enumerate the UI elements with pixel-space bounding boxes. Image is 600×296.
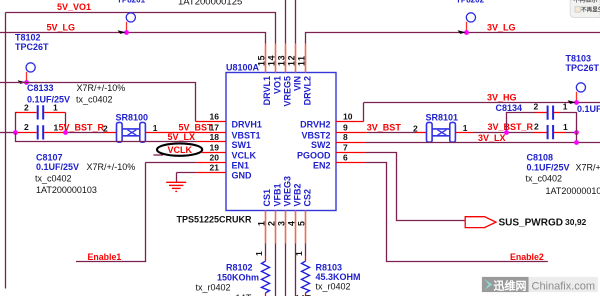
svg-text:SUS_PWRGD: SUS_PWRGD	[499, 217, 563, 228]
svg-text:3V_HG: 3V_HG	[487, 92, 517, 102]
resistor R8103 body	[302, 261, 310, 293]
svg-text:1AT200000125: 1AT200000125	[178, 0, 242, 8]
svg-text:SR8100: SR8100	[116, 113, 149, 123]
svg-text:1: 1	[257, 221, 267, 226]
svg-text:tx_c0402: tx_c0402	[526, 174, 563, 184]
svg-text:3V_BST: 3V_BST	[367, 123, 402, 133]
test point circle (mid left)	[26, 63, 35, 72]
pin 6 stub	[336, 162, 365, 164]
wire net 3V_LX	[365, 142, 600, 144]
svg-text:10: 10	[343, 112, 353, 122]
svg-text:DRVL2: DRVL2	[303, 76, 313, 105]
wire C8133 right lead	[44, 112, 65, 114]
wire C8133 row left corner	[16, 113, 18, 133]
svg-text:9: 9	[343, 122, 348, 132]
svg-text:1: 1	[254, 251, 264, 256]
wire net 3V_HG	[364, 102, 600, 104]
wire VIN pin 12 up	[295, 0, 297, 44]
wire net DRVH1 to pin 16	[0, 83, 196, 122]
svg-text:2: 2	[267, 221, 277, 226]
wire C8107 left lead	[16, 132, 37, 134]
svg-text:VREG3: VREG3	[282, 176, 292, 207]
wire net 5V_LX row to pin 18	[16, 133, 197, 142]
ground stem	[176, 173, 178, 183]
pin 20 stub	[196, 162, 226, 164]
test point stub	[576, 92, 578, 102]
capacitor C8134 plates	[548, 106, 554, 120]
svg-text:TPC26T: TPC26T	[566, 63, 600, 73]
wire 5V_BST_R under label	[66, 132, 104, 134]
svg-text:30,92: 30,92	[565, 217, 587, 227]
svg-text:11: 11	[297, 55, 307, 66]
svg-text:0.1UF/25V: 0.1UF/25V	[527, 163, 570, 173]
svg-text:R8102: R8102	[226, 263, 253, 273]
svg-text:不再显示: 不再显示	[574, 0, 598, 4]
jumper SR8101 body	[427, 122, 456, 142]
svg-text:CS2: CS2	[303, 189, 313, 207]
wire C8133 left lead	[16, 112, 37, 114]
pin 8 stub	[336, 142, 365, 144]
wire C8107 right lead / 5V_BST_R	[44, 132, 65, 134]
svg-text:TP8201: TP8201	[117, 0, 146, 5]
junction dot (576.3,142.8)	[574, 140, 579, 145]
wire SR8101 pin1 lead	[455, 132, 474, 134]
junction dot on DRVH1 net	[24, 80, 29, 85]
svg-text:1: 1	[563, 122, 568, 132]
svg-text:tx_c0402: tx_c0402	[35, 174, 72, 184]
watermark light box	[529, 277, 598, 292]
svg-text:TPC26T: TPC26T	[15, 42, 49, 52]
svg-text:EN1: EN1	[232, 161, 250, 171]
svg-text:3: 3	[277, 221, 287, 226]
test point TP circle (right top)	[466, 13, 475, 22]
svg-text:13: 13	[277, 55, 287, 66]
svg-text:VCLK: VCLK	[232, 151, 257, 161]
svg-text:19: 19	[210, 143, 220, 153]
svg-text:Enable1: Enable1	[88, 252, 122, 262]
junction dot on 3V_HG	[574, 100, 579, 105]
pin 16 stub	[196, 121, 227, 123]
jumper SR8100 body	[117, 122, 146, 142]
svg-text:GND: GND	[232, 171, 253, 181]
svg-text:12: 12	[287, 55, 297, 66]
svg-text:TPS51225CRUKR: TPS51225CRUKR	[177, 214, 253, 224]
svg-text:1AT200000103: 1AT200000103	[36, 185, 97, 195]
svg-text:15: 15	[257, 55, 267, 66]
wire 3V_BST to SR8101	[416, 132, 427, 134]
svg-text:3V_LX: 3V_LX	[478, 133, 506, 143]
svg-text:5V_VO1: 5V_VO1	[57, 2, 91, 12]
svg-text:U8100A: U8100A	[226, 63, 260, 73]
pin 18 stub	[196, 141, 226, 143]
capacitor C8108 plates	[548, 125, 554, 139]
svg-text:21: 21	[210, 163, 220, 173]
svg-text:VFB2: VFB2	[293, 183, 303, 206]
svg-text:DRVL1: DRVL1	[262, 76, 272, 105]
pin 9 stub	[336, 132, 367, 134]
capacitor C8133 plates	[38, 105, 44, 119]
svg-text:1: 1	[563, 102, 568, 112]
probe arrow on DRVH1 net	[18, 80, 26, 84]
svg-text:SR8101: SR8101	[426, 113, 459, 123]
wire net 5V_LG + corner to pin 15	[0, 33, 266, 44]
svg-text:1AT20000010: 1AT20000010	[546, 186, 600, 196]
IC U8100A body	[226, 73, 336, 211]
svg-text:不再显生: 不再显生	[581, 6, 600, 14]
svg-text:VCLK: VCLK	[168, 145, 193, 155]
wire pin 21 GND row	[177, 172, 197, 174]
junction dot (66,132.3)	[63, 130, 68, 135]
wire C8134 row1 left	[507, 113, 536, 133]
probe arrow on 3V_HG	[568, 100, 576, 104]
svg-text:1: 1	[294, 251, 304, 256]
svg-text:VBST2: VBST2	[301, 130, 330, 140]
off-page connector SUS_PWRGD	[465, 217, 496, 228]
pin 10 stub	[336, 121, 364, 123]
svg-text:5V_LX: 5V_LX	[168, 132, 196, 142]
wire C8134 left lead	[535, 112, 547, 114]
svg-text:tx_c0402: tx_c0402	[76, 94, 113, 104]
wire pin 20 row	[146, 162, 197, 164]
svg-text:EN2: EN2	[313, 161, 331, 171]
wire CS1 to R8102	[265, 244, 267, 257]
wire net 3V_LG + corner to pin 11	[306, 33, 600, 44]
wire C8133 right corner down	[65, 113, 67, 133]
pin 21 stub	[196, 172, 226, 174]
wire net 5V_LX left segment (row2)	[0, 132, 16, 134]
svg-text:0.1UF/25V: 0.1UF/25V	[27, 94, 70, 104]
junction dot (506.3,132.2)	[504, 130, 509, 135]
svg-text:2: 2	[103, 123, 108, 133]
wire VFB2 down	[295, 244, 297, 296]
svg-text:C8107: C8107	[36, 152, 63, 162]
svg-text:5V_BST_R: 5V_BST_R	[59, 123, 105, 133]
svg-text:4: 4	[287, 221, 297, 226]
svg-text:3V_BST_R: 3V_BST_R	[488, 122, 534, 132]
wire left vertical rail x=5.7	[5, 13, 7, 289]
svg-text:2: 2	[534, 102, 539, 112]
wire net Enable2	[365, 163, 547, 262]
overlay panel top right	[570, 0, 600, 18]
svg-text:1: 1	[53, 102, 58, 112]
wire R8102 bottom	[265, 293, 267, 296]
wire C8134 right corner down	[560, 113, 577, 132]
wire CS2 to R8103	[305, 244, 307, 257]
svg-text:Chinafix.com: Chinafix.com	[532, 280, 596, 292]
probe arrow on 5V_LG	[118, 30, 126, 34]
svg-text:tx_r0402: tx_r0402	[196, 283, 231, 293]
ground symbol	[166, 182, 186, 191]
wire C8108 left lead	[534, 132, 547, 134]
svg-text:SW1: SW1	[232, 140, 252, 150]
IC top pin stubs	[266, 44, 306, 73]
svg-text:1: 1	[463, 123, 468, 133]
wire VFB1 down	[275, 244, 277, 296]
junction dot (576.3,132.2)	[574, 130, 579, 135]
svg-text:R8103: R8103	[316, 262, 343, 272]
svg-text:CS1: CS1	[262, 189, 272, 207]
junction dot on 5V_LG	[124, 30, 129, 35]
wire 3V_BST under label	[367, 132, 416, 134]
svg-text:2: 2	[413, 123, 418, 133]
svg-text:8: 8	[343, 132, 348, 142]
capacitor C8107 plates	[38, 125, 44, 139]
svg-text:1: 1	[153, 123, 158, 133]
wire C8134 right lead	[554, 112, 560, 114]
wire VREG5 pin 13 up	[285, 0, 287, 44]
svg-text:6: 6	[343, 153, 348, 163]
test point stub	[26, 72, 28, 82]
svg-text:Enable2: Enable2	[510, 252, 544, 262]
wire VREG3 down	[285, 244, 287, 296]
svg-text:迅维网: 迅维网	[494, 278, 527, 292]
svg-text:2: 2	[24, 102, 29, 112]
svg-text:X7R/+/-10%: X7R/+/-10%	[77, 83, 126, 93]
svg-text:16: 16	[210, 112, 220, 122]
watermark dark box	[482, 277, 529, 292]
wire 5V_BST_R to SR8100	[103, 132, 117, 134]
test point stub	[126, 22, 128, 32]
probe arrow on 3V_LG	[458, 30, 466, 34]
svg-text:VIN: VIN	[293, 76, 303, 91]
svg-text:3V_LG: 3V_LG	[487, 23, 516, 33]
svg-text:0.1UF/25V: 0.1UF/25V	[36, 162, 79, 172]
test point TP circle (left top)	[126, 13, 135, 22]
svg-text:150KOhm: 150KOhm	[217, 273, 259, 283]
wire C8108 right lead	[554, 132, 565, 134]
test point stub	[466, 22, 468, 32]
wire SR8100 pin1 to pin17 / 5V_BST	[145, 132, 226, 134]
svg-text:17: 17	[210, 122, 220, 132]
svg-text:5V_LG: 5V_LG	[47, 23, 76, 33]
wire R8103 bottom	[305, 293, 307, 296]
svg-text:5: 5	[297, 221, 307, 226]
svg-text:X7R/+: X7R/+	[576, 163, 600, 173]
svg-text:14: 14	[267, 55, 277, 66]
svg-text:DRVH1: DRVH1	[232, 120, 262, 130]
svg-text:C8108: C8108	[527, 153, 554, 163]
svg-text:VREG5: VREG5	[282, 76, 292, 107]
svg-text:PGOOD: PGOOD	[297, 151, 331, 161]
junction dot on 3V_LG	[464, 30, 469, 35]
svg-text:2: 2	[24, 122, 29, 132]
wire to LX dot	[565, 132, 577, 134]
svg-text:7: 7	[343, 143, 348, 153]
wire net 5V_VO1 horizontal + corner to pin 14	[6, 13, 276, 44]
wire 3V_BST_R under label	[474, 132, 534, 134]
overlay checkbox	[575, 7, 580, 12]
wire net SUS_PWRGD	[365, 153, 465, 221]
wire net Enable1 vertical from pin 20	[145, 163, 147, 262]
test point TP circle (right mid)	[576, 83, 585, 92]
svg-text:T8103: T8103	[566, 54, 592, 64]
svg-text:20: 20	[210, 153, 220, 163]
svg-text:VBST1: VBST1	[232, 130, 261, 140]
wire BSTR to LX vertical	[576, 133, 578, 143]
svg-text:TP8202: TP8202	[456, 0, 485, 5]
svg-text:C8134: C8134	[496, 103, 523, 113]
pin 7 stub	[336, 152, 365, 154]
svg-text:VO1: VO1	[272, 76, 282, 94]
wire net 3V_HG riser	[363, 103, 365, 122]
VCLK stub left	[154, 154, 164, 156]
wire VCLK to pin 19	[201, 152, 226, 154]
IC bottom pin stubs	[266, 211, 306, 244]
svg-text:VFB1: VFB1	[272, 183, 282, 206]
svg-text:18: 18	[210, 132, 220, 142]
svg-text:X7R/+/-10%: X7R/+/-10%	[87, 162, 136, 172]
svg-text:DRVH2: DRVH2	[300, 120, 330, 130]
svg-text:C8133: C8133	[27, 83, 54, 93]
wire Enable1 horizontal	[76, 261, 146, 263]
svg-text:SW2: SW2	[311, 140, 331, 150]
svg-text:tx_r0402: tx_r0402	[316, 282, 351, 292]
VCLK ellipse annotation	[157, 143, 202, 155]
watermark chevron	[485, 279, 493, 290]
junction dot (15.5,132.3)	[13, 130, 18, 135]
resistor R8102 body	[262, 261, 270, 293]
svg-text:0.1UF: 0.1UF	[577, 104, 600, 114]
svg-text:2: 2	[534, 121, 539, 131]
